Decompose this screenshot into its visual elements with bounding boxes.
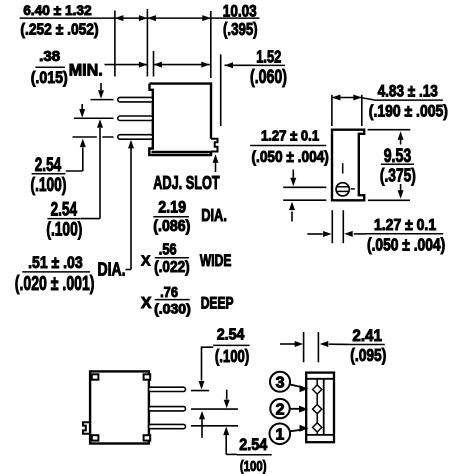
svg-text:(.022): (.022)	[154, 259, 190, 276]
svg-text:(.050 ± .004): (.050 ± .004)	[252, 149, 329, 166]
svg-text:4.83 ± .13: 4.83 ± .13	[378, 81, 438, 100]
svg-text:MIN.: MIN.	[69, 60, 103, 79]
svg-text:(.252 ± .052): (.252 ± .052)	[20, 22, 98, 39]
svg-text:2: 2	[276, 401, 285, 418]
svg-text:DIA.: DIA.	[98, 258, 126, 279]
svg-text:(.100): (.100)	[31, 175, 67, 196]
svg-text:2.54: 2.54	[35, 155, 62, 176]
svg-text:X: X	[141, 295, 152, 312]
svg-text:WIDE: WIDE	[200, 252, 232, 270]
svg-text:DIA.: DIA.	[201, 205, 227, 225]
svg-text:(.030): (.030)	[154, 300, 191, 316]
svg-text:(.095): (.095)	[350, 345, 386, 365]
svg-text:(.050 ± .004): (.050 ± .004)	[367, 234, 445, 254]
svg-text:2.54: 2.54	[217, 327, 245, 344]
svg-text:1.52: 1.52	[256, 46, 281, 66]
svg-text:1.27 ± 0.1: 1.27 ± 0.1	[374, 217, 437, 234]
svg-text:X: X	[141, 252, 151, 269]
svg-text:2.19: 2.19	[158, 198, 186, 217]
svg-text:2.54: 2.54	[239, 436, 268, 454]
svg-text:.51 ± .03: .51 ± .03	[28, 254, 83, 272]
svg-text:.38: .38	[39, 49, 60, 65]
svg-text:(.190 ± .005): (.190 ± .005)	[369, 101, 448, 120]
svg-text:DEEP: DEEP	[201, 295, 234, 313]
svg-text:(.086): (.086)	[153, 218, 190, 235]
svg-text:2.41: 2.41	[352, 327, 382, 345]
svg-text:(.375): (.375)	[380, 165, 416, 186]
svg-text:(.100): (.100)	[215, 346, 249, 366]
svg-text:(.060): (.060)	[250, 67, 287, 88]
svg-text:(100): (100)	[240, 458, 267, 474]
svg-text:(.100): (.100)	[46, 219, 82, 240]
svg-text:1: 1	[275, 427, 284, 444]
svg-text:ADJ. SLOT: ADJ. SLOT	[153, 172, 220, 193]
svg-text:1.27 ± 0.1: 1.27 ± 0.1	[261, 128, 319, 144]
svg-text:.56: .56	[159, 241, 177, 258]
svg-text:2.54: 2.54	[51, 199, 78, 220]
svg-text:(.395): (.395)	[223, 19, 258, 39]
svg-text:6.40 ± 1.32: 6.40 ± 1.32	[23, 2, 92, 18]
svg-text:(.015): (.015)	[31, 68, 68, 87]
svg-text:.76: .76	[160, 284, 178, 301]
svg-text:10.03: 10.03	[223, 1, 257, 20]
svg-text:(.020 ± .001): (.020 ± .001)	[15, 272, 95, 295]
svg-text:3: 3	[276, 375, 285, 392]
